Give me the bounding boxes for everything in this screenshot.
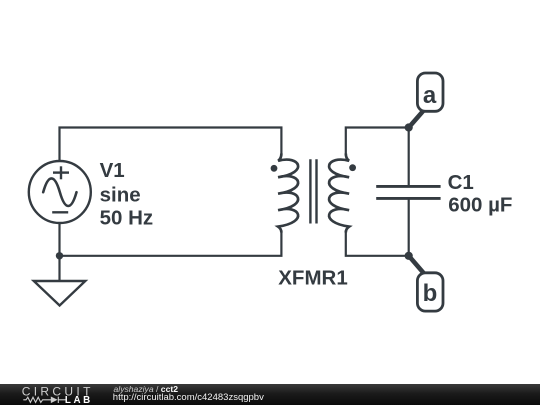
svg-text:sine: sine (100, 183, 141, 206)
transformer secondary polarity dot (349, 164, 356, 171)
junction node b dot (405, 252, 413, 260)
capacitor C1 plates (376, 186, 440, 198)
svg-text:b: b (423, 280, 438, 307)
voltage source V1 sine wave (43, 178, 76, 206)
voltage source V1 circle (29, 161, 91, 223)
svg-text:XFMR1: XFMR1 (278, 267, 347, 290)
wire: secondary bottom (transformer secondary bottom to node b) (346, 232, 409, 256)
CircuitLab logo (0, 384, 110, 405)
transformer XFMR1 primary winding (278, 154, 298, 233)
svg-text:C1: C1 (448, 171, 474, 194)
transformer XFMR1 secondary winding (329, 154, 349, 233)
wire: primary bottom (transformer primary bottom to ground node) (60, 232, 282, 256)
svg-text:a: a (423, 82, 437, 109)
svg-text:V1: V1 (100, 159, 125, 182)
ground symbol (34, 281, 86, 306)
wire: node a down to capacitor top plate (408, 128, 410, 187)
footer url text (113, 393, 264, 403)
wire: capacitor bottom plate to node b (408, 198, 410, 255)
terminal a box (417, 73, 443, 111)
junction node a dot (405, 123, 413, 131)
wire: diagonal to terminal b (409, 256, 424, 274)
terminal b box (417, 273, 443, 311)
footer bar (0, 384, 540, 405)
junction node: ground junction dot (56, 252, 63, 259)
footer credit text (114, 384, 179, 395)
svg-text:600 µF: 600 µF (448, 193, 512, 216)
transformer primary polarity dot (271, 165, 278, 172)
svg-text:50 Hz: 50 Hz (100, 207, 154, 230)
svg-text:LAB: LAB (65, 395, 93, 405)
voltage source minus sign (52, 211, 68, 213)
wire: diagonal to terminal a (409, 110, 424, 128)
voltage source plus sign (53, 166, 69, 179)
transformer XFMR1 core lines (310, 159, 316, 223)
wire: primary top (source top to transformer primary top) (60, 128, 282, 161)
wire: source bottom to ground (58, 223, 60, 280)
wire: secondary top (transformer secondary top to node a) (346, 128, 409, 154)
